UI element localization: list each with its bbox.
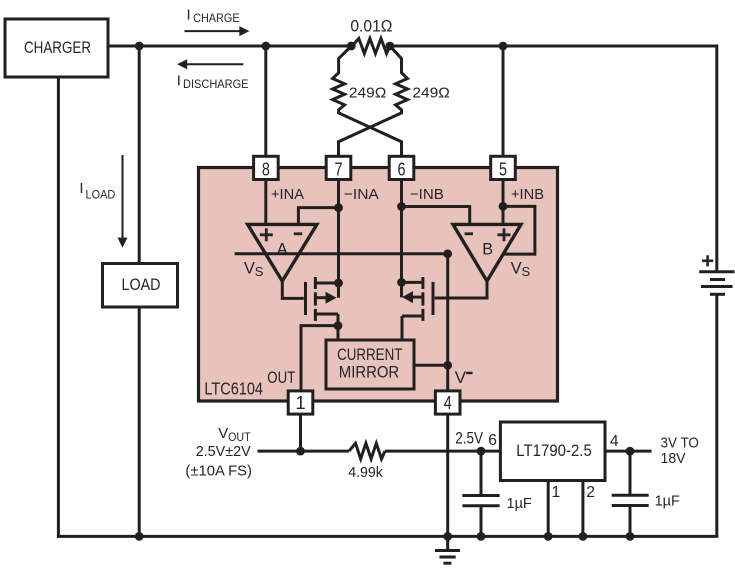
node sense right — [386, 42, 395, 51]
svg-text:18V: 18V — [661, 450, 686, 467]
wire down to pin 8 — [264, 46, 267, 156]
svg-text:I: I — [187, 7, 191, 24]
node LT pin1 rail — [544, 532, 553, 541]
svg-text:1: 1 — [552, 484, 561, 501]
label VS left — [244, 260, 264, 279]
wire battery bottom lead — [715, 294, 718, 536]
wire LT pin2 to rail — [581, 481, 584, 537]
resistor 249 ohm right — [339, 46, 450, 156]
node vout pin1 — [296, 447, 305, 456]
svg-text:I: I — [177, 73, 181, 90]
charger box — [5, 19, 108, 77]
svg-text:B: B — [482, 240, 493, 258]
capacitor C2 1uF — [612, 451, 680, 536]
svg-text:5: 5 — [499, 159, 507, 180]
wire LT pin1 to rail — [547, 481, 550, 537]
wire VS node to V- vertical — [446, 254, 449, 390]
capacitor C1 1uF — [462, 451, 531, 536]
wire B source to mirror — [401, 316, 404, 342]
node load rail — [135, 532, 144, 541]
node vin — [626, 447, 635, 456]
node pin5 tap — [499, 42, 508, 51]
node ground junction — [443, 532, 452, 541]
svg-text:2: 2 — [586, 484, 595, 501]
node C1 rail — [477, 532, 486, 541]
svg-text:−INA: −INA — [344, 186, 379, 203]
svg-text:4: 4 — [444, 392, 452, 413]
IC LTC6104 body — [199, 168, 558, 402]
op-amp U1B — [453, 224, 521, 281]
pin 8 — [254, 156, 279, 179]
wire pin5 to op-amp B plus input — [502, 180, 505, 224]
pin 1 — [288, 391, 313, 414]
node LT pin2 rail — [579, 532, 588, 541]
pin 4 — [435, 391, 460, 414]
label V- — [455, 368, 473, 387]
wire vout horizontal — [258, 450, 350, 453]
resistor 249 ohm left — [333, 46, 402, 156]
wire mirror to V- — [414, 364, 448, 367]
wire B minus input — [402, 207, 470, 225]
svg-text:8: 8 — [262, 159, 270, 180]
resistor 4.99k — [348, 443, 385, 481]
svg-text:S: S — [255, 264, 264, 279]
wire top rail right to battery — [390, 46, 717, 272]
svg-text:1µF: 1µF — [507, 495, 532, 512]
svg-text:OUT: OUT — [228, 430, 251, 444]
node -INA to minus input — [334, 203, 343, 212]
node mirror to V- — [443, 361, 452, 370]
node pin8 tap — [261, 42, 270, 51]
svg-text:V: V — [511, 260, 522, 278]
svg-text:(±10A FS): (±10A FS) — [185, 463, 252, 480]
current mirror box — [326, 340, 414, 389]
svg-text:−INB: −INB — [410, 186, 444, 203]
svg-text:V: V — [218, 425, 228, 442]
svg-text:LT1790-2.5: LT1790-2.5 — [516, 441, 592, 460]
svg-text:4: 4 — [610, 433, 619, 450]
svg-text:LTC6104: LTC6104 — [204, 379, 263, 399]
pin 6 — [389, 156, 414, 179]
current arrow ICHARGE — [185, 7, 250, 36]
pin 7 — [326, 156, 351, 179]
ground — [435, 536, 460, 563]
current arrow IDISCHARGE — [177, 59, 249, 91]
current arrow ILOAD — [79, 155, 127, 248]
resistor 0.01 ohm sense — [350, 17, 392, 54]
svg-text:CHARGER: CHARGER — [24, 38, 91, 57]
svg-text:MIRROR: MIRROR — [339, 363, 399, 382]
wire pin8 to op-amp A plus input — [264, 180, 267, 224]
node top junction to load — [135, 42, 144, 51]
node -INA to drain — [334, 279, 343, 288]
svg-text:0.01Ω: 0.01Ω — [350, 17, 392, 36]
op-amp U1A — [248, 224, 317, 281]
node 2.5V — [477, 447, 486, 456]
wire B gate lead — [435, 281, 487, 298]
node A source junction — [334, 321, 343, 330]
svg-text:4.99k: 4.99k — [348, 464, 383, 481]
wire pin1 down to vout node — [299, 414, 302, 451]
label VOUT — [218, 425, 251, 444]
bottom rail — [57, 535, 718, 538]
svg-text:249Ω: 249Ω — [412, 84, 449, 101]
wire top rail left — [109, 45, 353, 48]
svg-text:CURRENT: CURRENT — [337, 345, 402, 364]
wire A minus input — [298, 208, 338, 225]
wire A source to mirror — [337, 314, 340, 342]
node -INB to minus input — [397, 202, 406, 211]
battery B1 — [699, 255, 734, 294]
wire -INA vertical — [337, 180, 340, 298]
wire +INB feedback loop — [503, 206, 535, 254]
pin 5 — [491, 156, 516, 179]
svg-text:6: 6 — [488, 432, 497, 449]
svg-text:LOAD: LOAD — [122, 275, 161, 294]
svg-text:7: 7 — [335, 159, 343, 180]
VS rail — [235, 252, 448, 255]
wire resistor to regulator — [385, 450, 501, 453]
svg-text:OUT: OUT — [267, 368, 295, 387]
svg-text:+INB: +INB — [511, 186, 544, 203]
svg-text:I: I — [79, 180, 83, 197]
node VS rail junction — [443, 249, 452, 258]
transistor Q B — [402, 277, 434, 321]
label VS right — [511, 260, 531, 279]
svg-text:249Ω: 249Ω — [349, 84, 386, 101]
svg-text:3V TO: 3V TO — [661, 434, 699, 451]
node -INB to drain — [397, 278, 406, 287]
wire load to rail — [138, 307, 141, 536]
wire down to pin 5 — [502, 46, 505, 156]
svg-text:S: S — [522, 264, 531, 279]
transistor Q A — [306, 277, 339, 321]
svg-text:2.5V: 2.5V — [455, 429, 483, 448]
svg-text:+INA: +INA — [271, 186, 304, 203]
wire A source to out — [301, 326, 338, 390]
wire -INB vertical — [400, 180, 403, 297]
svg-text:6: 6 — [398, 159, 406, 180]
node C2 rail — [626, 532, 635, 541]
wire vin — [605, 450, 652, 453]
load box — [103, 264, 178, 308]
svg-text:LOAD: LOAD — [86, 188, 116, 202]
node sense left — [347, 42, 356, 51]
svg-text:2.5V±2V: 2.5V±2V — [196, 443, 251, 460]
wire charger bottom drop — [57, 77, 60, 538]
node +INB junction — [499, 202, 508, 211]
svg-text:A: A — [277, 240, 288, 258]
wire junction down to load — [138, 46, 141, 264]
svg-text:CHARGE: CHARGE — [193, 11, 240, 25]
wire pin4 down to ground rail — [446, 414, 449, 536]
svg-text:V: V — [244, 260, 255, 278]
svg-text:1: 1 — [295, 392, 305, 413]
wire A gate lead — [282, 281, 304, 298]
svg-text:V: V — [455, 368, 467, 387]
voltage regulator LT1790-2.5 — [500, 422, 605, 481]
svg-text:DISCHARGE: DISCHARGE — [183, 77, 249, 91]
svg-text:1µF: 1µF — [655, 493, 680, 510]
